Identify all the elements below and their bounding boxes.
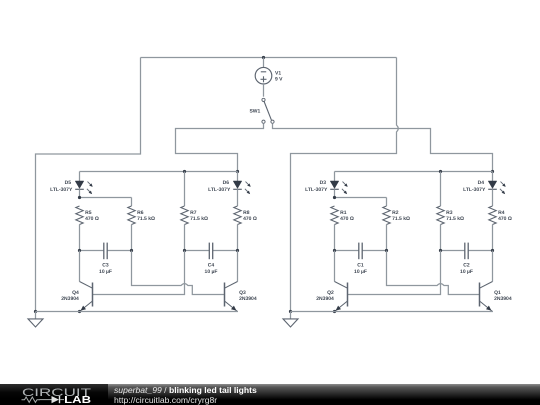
transistor Q3 2N3904 <box>224 283 226 307</box>
node left ground junction <box>34 310 37 313</box>
capacitor C2 10 uF <box>441 250 465 252</box>
svg-text:C2: C2 <box>463 263 470 269</box>
wire top rail to right ground drop with hop over switch wire <box>291 58 399 312</box>
svg-text:2N3904: 2N3904 <box>61 296 79 302</box>
transistor Q1 2N3904 <box>479 283 481 307</box>
node right ground junction <box>289 310 292 313</box>
svg-text:2N3904: 2N3904 <box>239 296 257 302</box>
svg-text:10 µF: 10 µF <box>460 269 473 275</box>
svg-text:C1: C1 <box>357 263 364 269</box>
node C2 right junction <box>491 249 494 252</box>
svg-text:Q1: Q1 <box>494 290 501 296</box>
svg-text:R3: R3 <box>446 210 453 216</box>
node V1 top junction <box>262 56 265 59</box>
wire Q2 collector lead <box>334 251 336 282</box>
wire switch pole to left block feed <box>176 123 264 171</box>
wire top rail to left ground drop <box>36 58 141 312</box>
svg-text:C3: C3 <box>102 263 109 269</box>
svg-text:71.5 kΩ: 71.5 kΩ <box>446 216 464 222</box>
wire C4 left plate to Q4 base <box>93 251 185 295</box>
svg-text:V1: V1 <box>275 70 281 76</box>
svg-text:9 V: 9 V <box>275 76 283 82</box>
wire main top rail <box>141 57 397 59</box>
LED D4 <box>492 172 494 182</box>
transistor Q2 2N3904 <box>347 283 349 307</box>
wire D3 cathode to R2 top <box>334 189 336 197</box>
svg-text:D4: D4 <box>478 180 485 186</box>
svg-text:R2: R2 <box>392 210 399 216</box>
LED D6 <box>237 172 239 182</box>
svg-text:LTL-307Y: LTL-307Y <box>463 187 486 193</box>
node rail to R7 junction <box>183 170 186 173</box>
resistor R5 470 Ohm <box>76 206 83 225</box>
resistor R4 470 Ohm <box>492 189 494 206</box>
node D3 cathode junction <box>333 196 336 199</box>
svg-text:D5: D5 <box>65 180 72 186</box>
node D5 cathode junction <box>78 196 81 199</box>
svg-text:R4: R4 <box>498 210 505 216</box>
resistor R8 470 Ohm <box>237 189 239 206</box>
node C1 left junction <box>333 249 336 252</box>
svg-text:D6: D6 <box>223 180 230 186</box>
svg-text:470 Ω: 470 Ω <box>498 216 512 222</box>
node right block feed junction <box>491 170 494 173</box>
node Q2 emitter junction <box>333 310 336 313</box>
resistor R2 71.5 kOhm <box>383 206 390 225</box>
svg-text:2N3904: 2N3904 <box>494 296 512 302</box>
ground symbol right <box>290 312 292 319</box>
CircuitLab logo <box>0 384 108 405</box>
capacitor C4 10 uF <box>185 250 210 252</box>
svg-text:470 Ω: 470 Ω <box>340 216 354 222</box>
svg-text:C4: C4 <box>208 263 215 269</box>
wire C3 right plate to Q3 base with hop <box>132 251 225 295</box>
node C1 right junction <box>385 249 388 252</box>
resistor R3 71.5 kOhm <box>440 172 442 207</box>
footer credit text <box>114 385 257 405</box>
svg-text:R1: R1 <box>340 210 347 216</box>
svg-text:R5: R5 <box>85 210 92 216</box>
node left block feed junction <box>236 170 239 173</box>
svg-text:LTL-307Y: LTL-307Y <box>50 187 73 193</box>
wire right block bottom rail <box>291 311 494 313</box>
svg-text:Q2: Q2 <box>327 290 334 296</box>
resistor R7 71.5 kOhm <box>184 172 186 207</box>
LED D3 <box>334 172 336 182</box>
node C4 left junction <box>183 249 186 252</box>
wire Q1 collector lead <box>492 251 494 282</box>
resistor R1 470 Ohm <box>331 206 338 225</box>
node C2 left junction <box>439 249 442 252</box>
svg-text:SW1: SW1 <box>249 109 260 115</box>
svg-text:2N3904: 2N3904 <box>316 296 334 302</box>
svg-text:LAB: LAB <box>64 395 91 405</box>
svg-text:R6: R6 <box>137 210 144 216</box>
capacitor C3 10 uF <box>80 250 104 252</box>
transistor Q4 2N3904 <box>92 283 94 307</box>
svg-text:Q4: Q4 <box>72 290 79 296</box>
svg-text:Q3: Q3 <box>239 290 246 296</box>
svg-text:10 µF: 10 µF <box>354 269 367 275</box>
svg-text:470 Ω: 470 Ω <box>85 216 99 222</box>
wire D5 cathode to R6 top <box>79 189 81 197</box>
LED D5 <box>79 172 81 182</box>
svg-text:10 µF: 10 µF <box>205 269 218 275</box>
wire block top rail <box>80 171 238 173</box>
node C4 right junction <box>236 249 239 252</box>
resistor R6 71.5 kOhm <box>128 206 135 225</box>
svg-text:71.5 kΩ: 71.5 kΩ <box>190 216 208 222</box>
svg-text:71.5 kΩ: 71.5 kΩ <box>392 216 410 222</box>
wire C2 left plate to Q2 base <box>348 251 441 295</box>
svg-text:10 µF: 10 µF <box>99 269 112 275</box>
wire left block bottom rail <box>36 311 239 313</box>
capacitor C1 10 uF <box>335 250 359 252</box>
svg-text:470 Ω: 470 Ω <box>243 216 257 222</box>
svg-text:R7: R7 <box>190 210 197 216</box>
node rail to R3 junction <box>439 170 442 173</box>
wire Q4 collector lead <box>79 251 81 282</box>
wire block top rail <box>335 171 493 173</box>
svg-text:LTL-307Y: LTL-307Y <box>208 187 231 193</box>
svg-text:D3: D3 <box>320 180 327 186</box>
ground symbol left <box>35 312 37 319</box>
wire C1 right plate to Q1 base with hop <box>387 251 480 295</box>
wire Q3 collector lead <box>237 251 239 282</box>
svg-text:LTL-307Y: LTL-307Y <box>305 187 328 193</box>
node C3 right junction <box>130 249 133 252</box>
svg-text:R8: R8 <box>243 210 250 216</box>
battery V1 9V <box>263 58 265 68</box>
switch SW1 <box>262 98 265 101</box>
svg-text:71.5 kΩ: 71.5 kΩ <box>137 216 155 222</box>
node Q4 emitter junction <box>78 310 81 313</box>
node C3 left junction <box>78 249 81 252</box>
wire switch throw to right block feed <box>273 123 493 171</box>
